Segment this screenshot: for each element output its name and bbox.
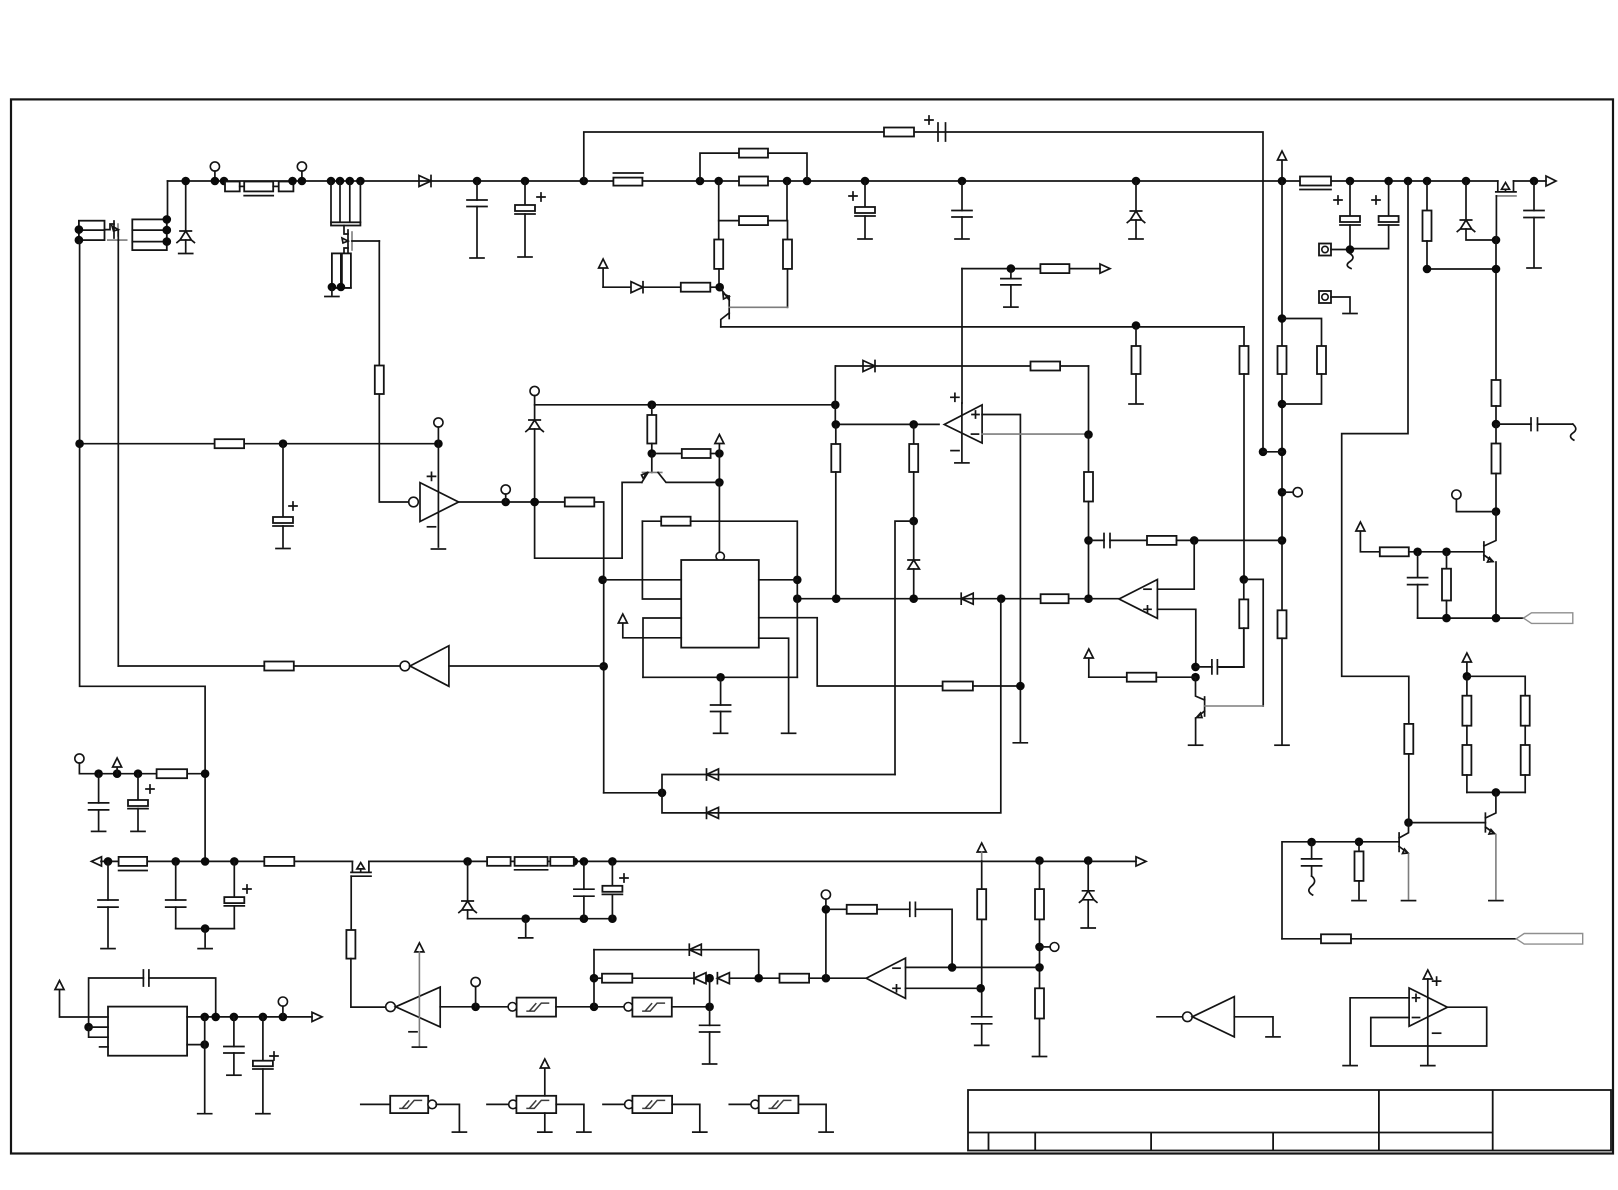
resistor R29: [835, 424, 837, 444]
diode D8: [913, 521, 915, 560]
terminal J10: [1040, 946, 1050, 948]
capacitor C23 polar: [611, 861, 613, 885]
wire emitter rail: [721, 326, 1244, 328]
wire x1282 lower details: [1278, 314, 1287, 323]
node T1 left taps: [75, 225, 84, 234]
power flag P4: [1462, 653, 1471, 676]
power flag P11: [55, 981, 108, 1018]
ground +input: [1343, 1065, 1357, 1067]
ground C25: [703, 1063, 717, 1065]
capacitor C21 polar: [233, 861, 235, 897]
capacitor C27 feedback: [89, 978, 144, 1027]
schmitt U13: [487, 1103, 509, 1105]
resistor R49 x1039: [1039, 861, 1041, 890]
wire pin3 left riser: [643, 618, 681, 677]
wire pin1 right: [759, 579, 798, 581]
wire diode loop top: [594, 950, 759, 979]
wire jog to base: [1244, 579, 1263, 706]
wire U3 +input: [1157, 609, 1195, 667]
resistor R52: [602, 974, 632, 983]
power flag P7: [618, 614, 681, 638]
terminal J7: [530, 386, 539, 395]
ground x981: [975, 1044, 989, 1046]
node arrow tip out: [312, 1012, 322, 1021]
wire to Q4 base: [718, 454, 720, 483]
ground U2 rail: [955, 462, 969, 464]
resistor R14: [1446, 552, 1448, 569]
capacitor C5: [958, 177, 967, 186]
capacitor C2: [473, 177, 482, 186]
ground U14: [693, 1131, 707, 1133]
wire U6 +input: [906, 987, 981, 989]
wire left vertical from T1: [80, 240, 206, 861]
schmitt U12: [361, 1103, 390, 1105]
wire U11 junction riser: [709, 978, 711, 1025]
resistor R6 below bus: [714, 177, 723, 186]
node T1 taps: [163, 215, 172, 224]
terminal J1: [210, 162, 219, 171]
wire pin4 right: [759, 638, 789, 732]
capacitor C18 polar: [137, 774, 139, 800]
capacitor C16: [720, 677, 722, 705]
capacitor C17: [98, 774, 100, 803]
wire x1408 long jog line: [1404, 177, 1413, 186]
resistor R24: [1278, 610, 1287, 638]
resistor R48: [550, 857, 574, 866]
diode D2 on bus: [419, 176, 431, 187]
wire pin x797 riser: [796, 599, 798, 678]
capacitor C1 polar top: [938, 123, 946, 141]
transistor M4 mosfet: [352, 861, 369, 872]
wire main top bus: [168, 180, 1498, 182]
wire U9 pin3: [89, 1027, 108, 1037]
resistor R7 vertical: [718, 221, 720, 240]
resistor R31: [1040, 264, 1069, 273]
diode D12 zener: [467, 861, 469, 901]
schmitt U11: [594, 1006, 624, 1008]
inductor L2 fuse: [613, 172, 643, 174]
power flag P1: [599, 259, 608, 287]
resistor R34: [1041, 594, 1069, 603]
ground caps: [198, 948, 212, 950]
diode D10: [707, 769, 719, 780]
wire U7 input right: [449, 665, 604, 667]
capacitor C22: [583, 861, 585, 889]
wire Q4 collector to IC: [718, 482, 720, 552]
resistor R54: [826, 908, 847, 910]
transistor M1 mosfet: [105, 224, 115, 230]
wire y405 node line: [535, 404, 836, 406]
node bus arrow end: [1546, 176, 1556, 186]
resistor R51 x981: [981, 861, 983, 889]
resistor R38: [565, 498, 595, 507]
schmitt U10: [508, 1003, 517, 1012]
resistor R47: [487, 857, 511, 866]
wire squiggle hook: [1571, 424, 1576, 440]
wire rail right of M4: [463, 857, 472, 866]
wire U9 output line: [187, 1016, 312, 1018]
power flag P9: [977, 843, 986, 852]
wire y269 testpoint line: [962, 268, 1040, 270]
inductor L3 fuse: [1300, 177, 1331, 186]
ground W1: [325, 296, 339, 298]
wire x1282 rail: [1281, 181, 1283, 610]
power flag P2: [1278, 151, 1287, 181]
ground P12: [538, 1131, 552, 1133]
ground Q5: [1189, 744, 1203, 746]
resistor R11: [1492, 380, 1501, 406]
wire collector join: [1467, 791, 1525, 793]
ground R19: [1352, 900, 1366, 902]
wire U2 +input: [982, 415, 1020, 687]
wire x825 riser: [825, 909, 827, 978]
resistor R5 inline: [739, 177, 768, 186]
resistor R3 top: [884, 128, 914, 137]
capacitor C9: [1496, 423, 1531, 425]
wire second vertical from M1: [117, 240, 119, 666]
op-amp U3: [1119, 580, 1157, 619]
power flag P10: [415, 943, 424, 952]
resistor R44: [157, 769, 188, 778]
wire bus left drop to transformer: [167, 181, 169, 219]
resistor R46 gate: [346, 930, 355, 959]
terminal J13: [278, 997, 287, 1006]
wire jog x895: [895, 521, 914, 774]
resistor R25 vertical: [1243, 327, 1245, 346]
transistor M2 mosfet: [344, 226, 348, 235]
schmitt U14: [603, 1103, 625, 1105]
wire gate line to comparator: [378, 241, 380, 366]
resistor R21 on jog line: [1404, 724, 1413, 754]
resistor R8 vertical: [787, 221, 789, 240]
terminal J12: [821, 890, 830, 899]
resistor R41: [661, 517, 690, 526]
resistor network above bus R4: [696, 177, 705, 186]
terminal J8: [434, 418, 443, 427]
diode D6: [863, 361, 875, 372]
resistor R9: [681, 283, 711, 292]
resistor R19: [1355, 838, 1364, 847]
power flag P8: [113, 758, 122, 774]
resistor R28: [1031, 362, 1061, 371]
diode D15: [694, 973, 706, 984]
capacitor C24: [972, 1017, 992, 1024]
ground Q2: [1489, 900, 1503, 902]
ground x1282: [1275, 744, 1289, 746]
transformer T1 primary box: [79, 221, 105, 240]
inverter U7: [400, 661, 410, 671]
resistor R16: [1466, 726, 1468, 745]
diode D14: [689, 944, 701, 955]
capacitor C8: [1533, 181, 1535, 211]
wire U10 out: [556, 1006, 594, 1008]
terminal J11: [471, 977, 480, 986]
resistor R15: [1466, 676, 1468, 695]
inductor L5 fuse: [515, 857, 548, 866]
node bus dot a: [181, 177, 190, 186]
resistor R35: [1089, 676, 1127, 678]
ground Q1: [1402, 900, 1416, 902]
wire upper diode branch: [662, 775, 895, 793]
wire riser x594: [593, 950, 595, 1007]
ground J4: [1343, 313, 1357, 315]
inductor L4 fuse: [119, 857, 148, 866]
wire top feed riser: [580, 177, 589, 186]
power flag P5: [1084, 649, 1093, 677]
wire U1 output: [459, 501, 565, 503]
wire U16 feedback loop: [1371, 1007, 1487, 1046]
transistor M3 mosfet on bus: [1498, 181, 1514, 192]
diode D16: [717, 973, 729, 984]
connector J3: [1319, 244, 1331, 256]
wire diode pair junction: [604, 792, 662, 794]
capacitor C15 polar: [282, 444, 284, 517]
capacitor C26: [910, 902, 916, 916]
wire y424 line: [836, 423, 939, 425]
power flag P6: [715, 435, 724, 454]
diode D9: [961, 593, 973, 604]
winding W1 pair: [332, 253, 341, 288]
resistor R32: [1088, 435, 1090, 472]
resistor R17: [1467, 676, 1525, 695]
wire RC drop jog: [1259, 448, 1268, 457]
ground +input chain: [1013, 742, 1027, 744]
schmitt U15: [729, 1103, 751, 1105]
wire net line: [1418, 617, 1524, 619]
resistor R20: [1321, 934, 1351, 943]
wire U3 -input: [1157, 540, 1194, 589]
wire node line y443: [80, 443, 439, 445]
IC U9 bottom-left: [108, 1007, 187, 1056]
wire cap join rail: [176, 928, 235, 930]
IC U4: [681, 560, 759, 648]
wire y978 chain: [594, 977, 602, 979]
power flag P13: [1423, 970, 1432, 979]
capacitor C28: [233, 1017, 235, 1047]
resistor R30: [913, 424, 915, 444]
resistor R53: [780, 974, 810, 983]
terminal J5: [1452, 490, 1461, 499]
wire feedback loop left: [1282, 842, 1359, 939]
resistor R39: [648, 401, 657, 410]
resistor R40: [652, 453, 682, 455]
diode D11: [707, 807, 719, 818]
capacitor C7 polar: [1384, 177, 1393, 186]
wire diode row top: [836, 365, 1089, 367]
node rail right arrow: [1136, 857, 1146, 866]
transistor Q3: [1484, 512, 1496, 546]
op-amp U2: [944, 405, 982, 443]
op-amp U16 bottom right: [1409, 988, 1447, 1026]
terminal J9: [501, 485, 510, 494]
diode D7 zener: [526, 420, 543, 432]
capacitor C29 polar: [262, 1017, 264, 1061]
inductor L1 filter: [244, 182, 273, 192]
wire x1496 chain: [1495, 240, 1497, 380]
inverter U8: [1157, 1016, 1183, 1018]
wire y599 node line: [797, 598, 1119, 600]
comparator U1: [437, 444, 439, 547]
capacitor C20: [175, 861, 177, 900]
wire U5 output: [440, 1006, 508, 1008]
wire bottom net line: [1282, 938, 1321, 940]
power rail U2: [951, 393, 959, 401]
transformer T1 secondary winding box: [132, 219, 167, 250]
wire U9 pin4 stub: [100, 1046, 108, 1048]
diode D1 zener: [185, 181, 187, 231]
diode D3: [603, 282, 681, 293]
wire U9 pin2: [84, 1023, 93, 1032]
resistor R33: [1147, 536, 1177, 545]
ground C29: [256, 1113, 270, 1115]
ground U13: [577, 1131, 591, 1133]
wire U2 -input: [982, 433, 1088, 435]
node arrow tip: [1100, 264, 1110, 273]
resistor R43: [264, 662, 294, 671]
wire IC bottom rail: [643, 676, 797, 678]
wire y540 line: [1089, 539, 1105, 541]
ground U1 rail: [431, 548, 445, 550]
inverter U5 big: [386, 1002, 396, 1012]
resistor R42: [943, 682, 973, 691]
ground U15: [819, 1131, 833, 1133]
resistor R27 vertical mid: [1132, 321, 1141, 330]
capacitor C10: [1417, 552, 1419, 578]
diode D13 zener: [1087, 861, 1089, 891]
terminal J2: [297, 162, 306, 171]
wire lower diode branch: [662, 599, 1001, 813]
wire mid-left terminal row: [75, 754, 84, 763]
capacitor C25: [700, 1025, 720, 1032]
diode D4 zener: [1132, 177, 1141, 186]
wire pin2 feed: [642, 521, 681, 599]
wire y521 line: [642, 520, 661, 522]
capacitor C13: [1104, 534, 1110, 548]
capacitor C4 polar: [861, 177, 870, 186]
wire pin3 right chain: [759, 618, 943, 686]
resistor R45: [264, 857, 294, 866]
wire U9 pin5: [187, 1044, 205, 1046]
resistor R2: [279, 182, 294, 192]
wire U1 input: [379, 394, 408, 502]
ground mini rail: [519, 937, 533, 939]
ground U9 pin5: [198, 1113, 212, 1115]
diode D5 zener: [1462, 177, 1471, 186]
resistor R22: [1278, 346, 1287, 374]
capacitor C3 polar: [521, 177, 530, 186]
connector J4: [1319, 291, 1331, 303]
wire rail from corner: [961, 269, 963, 403]
transistor Q1: [1404, 818, 1413, 827]
label net flag F1: [1524, 613, 1573, 624]
ground U12: [452, 1131, 466, 1133]
transistor Q5: [1196, 677, 1205, 700]
resistor R18: [1524, 726, 1526, 745]
ground D1: [179, 253, 193, 255]
wire pin1 left: [603, 579, 682, 581]
title block: [968, 1090, 1611, 1151]
resistor R23 parallel: [1282, 319, 1322, 347]
power flag P3: [1356, 522, 1380, 552]
transformer T2 drain strap: [327, 177, 336, 186]
capacitor C6 polar: [1346, 177, 1355, 186]
transistor Q4: [651, 454, 653, 473]
resistor R36: [215, 439, 245, 448]
ground pin4: [782, 732, 796, 734]
capacitor C14: [1196, 666, 1212, 668]
wire U16 +input: [1350, 998, 1409, 1064]
capacitor C19: [107, 861, 109, 900]
ground U16 rail: [1421, 1065, 1435, 1067]
resistor R50: [1035, 988, 1044, 1018]
resistor R37 input: [375, 366, 384, 395]
transistor Q6: [720, 287, 730, 300]
capacitor C11: [1311, 842, 1313, 859]
wire U7 output left chain: [294, 665, 400, 667]
terminal IC top pin: [716, 552, 724, 560]
wire squiggle hook: [1309, 876, 1315, 895]
node rail left arrow: [92, 857, 102, 866]
ground C28: [227, 1074, 241, 1076]
wire ground mini rail: [468, 918, 613, 920]
resistor R26: [1243, 579, 1245, 599]
wire squiggle hook: [1347, 254, 1353, 269]
ground U8: [1266, 1036, 1280, 1038]
wire lower main rail y861: [101, 860, 352, 862]
label net flag F2: [1516, 934, 1583, 945]
capacitor C12: [1010, 269, 1012, 279]
power flag P12: [540, 1059, 549, 1131]
transistor Q2: [1485, 792, 1496, 818]
resistor R12: [1495, 424, 1497, 443]
wire U6 -input: [906, 966, 1040, 968]
resistor R1: [220, 177, 229, 186]
resistor R10: [1423, 177, 1432, 186]
terminal J6: [1282, 491, 1293, 493]
resistor R13: [1380, 547, 1409, 556]
ground U5: [412, 1046, 426, 1048]
op-amp U6: [866, 958, 905, 998]
ground x1039: [1033, 1056, 1047, 1058]
